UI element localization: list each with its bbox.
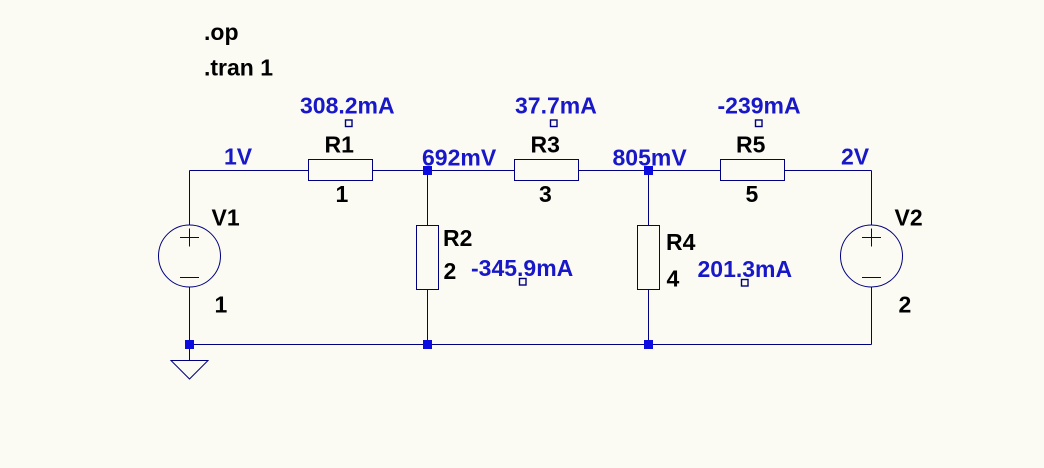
svg-text:R5: R5	[736, 132, 766, 158]
svg-text:2V: 2V	[841, 144, 870, 170]
svg-text:V2: V2	[895, 205, 923, 231]
svg-text:4: 4	[667, 266, 680, 292]
svg-text:1V: 1V	[224, 144, 253, 170]
svg-text:.tran 1: .tran 1	[204, 55, 273, 81]
svg-text:.op: .op	[204, 19, 239, 45]
svg-text:V1: V1	[212, 205, 240, 231]
svg-text:R4: R4	[666, 229, 696, 255]
svg-text:201.3mA: 201.3mA	[698, 256, 793, 282]
svg-text:37.7mA: 37.7mA	[515, 93, 597, 119]
svg-text:-239mA: -239mA	[718, 93, 801, 119]
svg-text:3: 3	[539, 181, 552, 207]
svg-text:5: 5	[746, 181, 759, 207]
svg-text:-345.9mA: -345.9mA	[471, 255, 573, 281]
svg-text:1: 1	[336, 181, 349, 207]
svg-text:805mV: 805mV	[613, 145, 688, 171]
svg-text:308.2mA: 308.2mA	[300, 93, 395, 119]
svg-text:2: 2	[444, 258, 457, 284]
svg-text:R2: R2	[443, 225, 472, 251]
svg-text:1: 1	[215, 292, 228, 318]
svg-text:R1: R1	[325, 132, 355, 158]
svg-text:2: 2	[899, 292, 912, 318]
svg-text:692mV: 692mV	[422, 145, 497, 171]
svg-text:R3: R3	[531, 132, 560, 158]
